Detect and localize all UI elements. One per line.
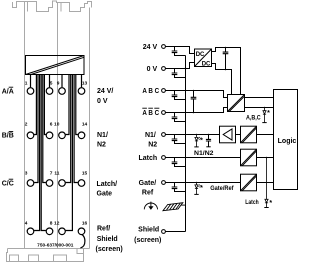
LED D4 (Latch status) — [264, 158, 268, 208]
filter capacitors on input rows — [172, 47, 186, 192]
svg-text:750-637/000-001: 750-637/000-001 — [37, 242, 74, 247]
clamp 1 — [27, 88, 34, 95]
capacitor C6 (Latch filter) — [172, 158, 186, 167]
svg-text:Gate/: Gate/ — [139, 180, 157, 187]
junction dot +V cap — [225, 47, 227, 49]
clamp 4 — [27, 228, 34, 235]
svg-text:N2: N2 — [97, 142, 106, 149]
svg-text:8: 8 — [50, 220, 53, 226]
terminal ABC — [162, 89, 166, 93]
module center edge — [57, 3, 59, 249]
svg-text:N1/: N1/ — [97, 132, 108, 139]
capacitor C7 (Gate filter) — [172, 183, 186, 192]
pin numbers — [25, 80, 88, 226]
svg-text:3: 3 — [25, 171, 28, 177]
clamp 5 — [46, 88, 53, 95]
clamp 12 — [59, 228, 66, 235]
wire Shield to rail — [166, 231, 186, 233]
wire pin2 — [34, 75, 36, 135]
connector diagonal 1 — [26, 56, 85, 75]
clamp 7 — [46, 180, 53, 187]
wire pin9 — [61, 75, 63, 88]
schematic terminal labels — [134, 44, 161, 244]
svg-text:*: * — [269, 200, 272, 207]
svg-text:7: 7 — [50, 171, 53, 177]
svg-text:9: 9 — [57, 80, 60, 86]
wire pin11 — [66, 75, 71, 183]
wire 24V to DC/DC — [166, 47, 195, 54]
clamp 16 — [78, 228, 85, 235]
schematic terminals (circles) — [162, 45, 166, 234]
comparator U3 — [220, 126, 236, 143]
capacitor C8 (DC/DC output) — [223, 48, 229, 70]
clamp 8 — [46, 228, 53, 235]
svg-text:4: 4 — [25, 220, 28, 226]
svg-text:*: * — [200, 138, 203, 145]
terminal ABCn — [162, 111, 166, 115]
svg-text:5: 5 — [50, 80, 53, 86]
wire comparator to isolator — [236, 134, 241, 136]
capacitor C3 (ABC filter) — [172, 91, 186, 100]
capacitor C9 (N1 filter to gnd) — [206, 135, 211, 147]
junction dot gnd cap — [225, 69, 227, 71]
LED D1 (A,B,C status) — [262, 108, 266, 123]
svg-text:10: 10 — [54, 122, 60, 128]
clamp 3 — [27, 180, 34, 187]
svg-text:Shield: Shield — [138, 227, 159, 234]
svg-text:(screen): (screen) — [96, 246, 123, 253]
top profile slot line left — [27, 2, 29, 12]
svg-text:Latch: Latch — [139, 155, 158, 162]
wire U5 out — [257, 157, 274, 159]
svg-text:N1/N2: N1/N2 — [194, 150, 214, 157]
module bottom edge — [8, 248, 90, 250]
terminal Gate — [162, 181, 166, 185]
module right edge — [89, 8, 91, 249]
svg-text:A B C: A B C — [142, 88, 159, 95]
wire ABC to isolator — [166, 91, 228, 98]
module right labels — [96, 88, 123, 253]
terminal Latch — [162, 156, 166, 160]
wire pin5 — [49, 75, 51, 88]
bottom foot outline — [7, 249, 84, 262]
terminal N1 — [162, 133, 166, 137]
svg-text:*: * — [267, 110, 270, 117]
capacitor C2 (0V filter) — [172, 69, 186, 78]
wire pin6 — [44, 75, 46, 135]
isolator U4 (N1/N2) — [241, 126, 257, 143]
DC/DC output gnd path — [212, 64, 232, 95]
capacitor C4 (ABCn filter) — [172, 113, 186, 122]
svg-text:DC: DC — [202, 61, 211, 67]
overbars A_ B_ C_ — [142, 107, 159, 109]
terminal clamps (circles) — [27, 88, 85, 235]
svg-text:0 V: 0 V — [147, 66, 158, 73]
svg-text:6: 6 — [50, 122, 53, 128]
top profile slot line right — [60, 3, 62, 12]
clamp 2 — [27, 132, 34, 139]
LED D3 (Gate/Ref status) — [194, 183, 200, 195]
wire pin3 — [34, 75, 38, 183]
wire pin4 — [34, 75, 40, 231]
wire 0V to DC/DC — [166, 63, 195, 69]
functional earth symbol — [144, 202, 157, 210]
isolator U6 (Gate/Ref) — [241, 174, 257, 191]
terminal 0V — [162, 67, 166, 71]
svg-text:13: 13 — [82, 80, 88, 86]
isolator U5 (Latch) — [241, 149, 257, 166]
wire pin15 — [74, 75, 78, 183]
module left edge — [24, 2, 26, 249]
svg-text:Gate: Gate — [97, 191, 113, 198]
svg-text:B/B: B/B — [2, 133, 14, 140]
wire pin13 — [81, 75, 83, 88]
wire U6 out — [257, 182, 274, 184]
wire U2 out lower — [245, 107, 274, 109]
svg-text:0 V: 0 V — [97, 98, 108, 105]
bottom foot tab 2 — [29, 255, 39, 262]
wire pin14 — [76, 75, 78, 135]
LED D2 (N1 status) — [194, 135, 200, 147]
wire pin1 — [30, 75, 32, 88]
svg-text:*: * — [200, 185, 203, 192]
svg-text:Logic: Logic — [278, 138, 297, 145]
left labels — [2, 88, 14, 187]
svg-text:Latch/: Latch/ — [97, 181, 118, 188]
wire pin7 — [43, 75, 46, 183]
cable shield symbol (hatched) — [163, 203, 186, 211]
wire N1 to comparator — [166, 134, 220, 136]
junction dot rail/0V — [185, 68, 187, 70]
terminal Shield — [162, 230, 166, 234]
capacitor C10 (ABC differential) — [191, 91, 197, 113]
svg-text:2: 2 — [25, 122, 28, 128]
clamp 6 — [46, 132, 53, 139]
terminal 24V — [162, 45, 166, 49]
svg-text:Gate/Ref: Gate/Ref — [210, 185, 234, 192]
svg-text:Latch: Latch — [245, 199, 258, 206]
bottom foot tab 3 — [54, 255, 67, 262]
module top profile — [13, 1, 92, 12]
DC/DC converter U1 — [195, 49, 212, 67]
wire A_B_C_ to isolator — [166, 108, 228, 113]
bottom foot right step — [77, 249, 84, 254]
svg-text:A,B,C: A,B,C — [246, 114, 261, 121]
svg-text:DC: DC — [196, 52, 205, 58]
clamp 13 — [78, 88, 85, 95]
svg-text:15: 15 — [82, 171, 88, 177]
isolator U2 (A,B,C) — [228, 95, 245, 112]
svg-text:Ref: Ref — [142, 189, 154, 196]
overbars for left labels — [9, 87, 14, 179]
svg-text:A/A: A/A — [2, 88, 14, 95]
wire pin10 — [66, 75, 69, 135]
wire GateRef to isolator — [166, 182, 241, 184]
DC/DC output +V rail — [212, 48, 241, 95]
svg-text:24 V: 24 V — [143, 44, 158, 51]
wire U4 out — [257, 134, 274, 136]
wire pin12 — [66, 75, 73, 231]
svg-text:C/C: C/C — [2, 180, 14, 187]
svg-text:11: 11 — [54, 171, 59, 177]
connector diagonal 2 — [31, 57, 84, 74]
clamp 11 — [59, 180, 66, 187]
wire U2 out upper — [245, 97, 274, 99]
svg-text:24 V/: 24 V/ — [97, 88, 113, 95]
svg-text:Ref/: Ref/ — [97, 226, 110, 233]
wire pin8 — [41, 75, 46, 231]
svg-text:16: 16 — [82, 220, 88, 226]
earth rail — [185, 56, 187, 232]
connector box K1 — [26, 56, 85, 75]
svg-text:N1/: N1/ — [145, 132, 156, 139]
wire pin16 earth hook — [80, 235, 85, 248]
capacitor C1 (24V filter) — [172, 47, 186, 56]
clamp 15 — [78, 180, 85, 187]
clamp 14 — [78, 132, 85, 139]
svg-text:12: 12 — [54, 220, 60, 226]
svg-text:1: 1 — [25, 80, 28, 86]
bottom foot tab 1 — [10, 255, 19, 262]
wires: module internal — [31, 75, 85, 248]
capacitor C5 (N1 filter) — [172, 135, 186, 144]
svg-text:Shield: Shield — [97, 236, 118, 243]
svg-text:N2: N2 — [148, 141, 157, 148]
clamp 10 — [59, 132, 66, 139]
clamp 9 — [59, 88, 66, 95]
svg-text:(screen): (screen) — [134, 237, 161, 244]
svg-text:A B C: A B C — [142, 110, 159, 117]
wire Latch to isolator — [166, 157, 241, 159]
svg-text:14: 14 — [82, 122, 88, 128]
Logic block U7 — [274, 90, 298, 190]
